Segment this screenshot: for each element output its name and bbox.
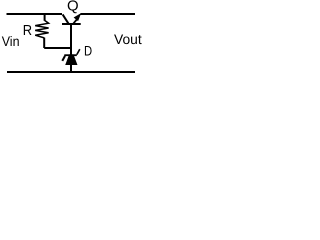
collector lead diagonal [63, 14, 69, 23]
wire: bottom rail (ground/common) [7, 71, 135, 73]
left zener tick [62, 56, 65, 61]
bottom lead [43, 38, 45, 48]
zener diode D [62, 49, 80, 72]
svg-text:D: D [84, 43, 92, 59]
emitter arrowhead [74, 14, 80, 21]
wire: base lead down to zener cathode [70, 25, 72, 56]
anode triangle [66, 55, 77, 65]
wire: node wire from R to base/zener junction [44, 47, 72, 49]
svg-text:Vin: Vin [2, 34, 20, 49]
svg-text:R: R [23, 23, 32, 39]
base bar [62, 23, 81, 25]
anode lead [70, 64, 72, 72]
resistor R [35, 14, 48, 49]
svg-text:Q: Q [67, 0, 79, 14]
top lead [44, 14, 46, 21]
transistor Q (NPN pass transistor) [62, 14, 81, 24]
svg-text:Vout: Vout [114, 31, 142, 47]
wire: top rail right (emitter to Vout) [81, 13, 136, 15]
wire: top rail left (Vin to collector) [7, 13, 63, 15]
cathode bar [64, 54, 77, 56]
emitter lead diagonal [73, 19, 77, 24]
right zener tick [77, 49, 80, 54]
zigzag body [35, 20, 48, 38]
